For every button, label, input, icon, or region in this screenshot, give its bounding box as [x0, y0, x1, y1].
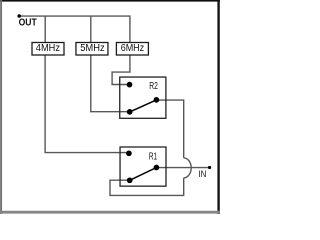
svg-text:R2: R2: [149, 81, 158, 92]
svg-text:R1: R1: [149, 152, 157, 163]
svg-text:6MHz: 6MHz: [121, 43, 145, 54]
svg-text:IN: IN: [198, 169, 206, 179]
svg-text:5MHz: 5MHz: [80, 43, 105, 54]
svg-text:4MHz: 4MHz: [36, 43, 60, 54]
svg-text:OUT: OUT: [19, 18, 37, 29]
